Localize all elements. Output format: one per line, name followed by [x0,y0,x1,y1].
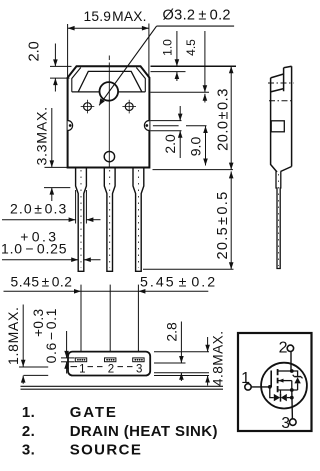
dim 5.45 line [4,289,209,294]
svg-text:2: 2 [108,364,114,376]
junction gate [268,385,272,389]
side notch left [68,121,73,131]
svg-text:1.0−0.25: 1.0−0.25 [1,240,67,256]
gate protection zeners [270,387,292,402]
source contact [278,389,298,391]
svg-text:3.3MAX.: 3.3MAX. [34,106,50,165]
svg-text:SOURCE: SOURCE [70,441,143,458]
dim 9.0 [153,126,208,166]
junction source [290,388,294,392]
side notch right [144,121,149,131]
bottom view pad 3 [133,358,144,362]
mosfet gate bar [270,371,272,388]
side view lead [276,172,281,269]
svg-text:2.: 2. [22,423,35,440]
svg-text:1: 1 [79,364,85,376]
terminal 2 [287,345,293,351]
side view dash line upper [268,82,294,84]
mosfet channel bar [277,369,279,392]
junction zener-source [290,396,294,400]
svg-text:20.5±0.5: 20.5±0.5 [215,190,231,259]
svg-text:2: 2 [279,340,288,357]
bottom view dashed tab line [71,366,78,368]
side view tab [284,66,292,166]
bottom view pad 1 [75,358,86,362]
dim 4.8 MAX. [154,330,225,386]
mounting hole [100,82,119,101]
dim 4.5 [151,31,210,103]
svg-text:5.45±0.2: 5.45±0.2 [140,275,217,291]
junction drain [290,369,294,373]
svg-text:3.: 3. [22,441,35,458]
svg-text:GATE: GATE [70,404,118,421]
terminal 1 [245,384,251,390]
dim 2.0 top left [26,41,71,91]
svg-text:2.0: 2.0 [26,41,42,61]
terminal 3 [290,419,297,426]
dim 3.3 MAX. [34,106,70,201]
bottom view pad 2 [105,358,116,362]
ejector mark right [122,100,136,114]
side view dash line lower [269,100,293,102]
wire gate [251,386,270,388]
dim 15.9 MAX. [68,9,149,77]
front view inner rim right [136,68,145,92]
svg-text:DRAIN (HEAT SINK): DRAIN (HEAT SINK) [70,423,218,440]
transistor circle [261,363,307,409]
svg-text:20.0±0.3: 20.0±0.3 [216,88,232,151]
dim 1.8 MAX. [5,305,48,384]
bottom center circle [104,151,114,161]
svg-text:15.9MAX.: 15.9MAX. [84,9,147,24]
svg-text:3: 3 [136,364,142,376]
dim 2.0 notch [151,106,183,158]
svg-text:1.0: 1.0 [160,39,174,56]
front view inner rim left [72,68,81,92]
dim 1.0 top right [151,31,237,81]
wire source to pin 3 [291,390,294,419]
ejector mark left [81,100,95,114]
dim hole dia [99,7,234,105]
dim 2.8 [154,322,209,382]
dim 20.0 +-0.3 [153,66,234,169]
pin 2 front [104,168,115,272]
svg-text:2.0: 2.0 [162,134,178,154]
drain contact [278,370,292,372]
dim 2.0 +-0.3 lead shoulder [2,190,101,224]
svg-text:4.8MAX.: 4.8MAX. [210,330,225,386]
seating plane lines [21,385,224,387]
bottom view body [68,352,150,376]
side view body [268,66,294,268]
center line [108,56,110,67]
wire drain [290,352,292,372]
front view ledge line [72,91,146,93]
pin 3 front [133,168,144,272]
side view notch rect [271,121,284,132]
svg-text:9.0: 9.0 [187,137,203,157]
svg-text:1.: 1. [22,404,35,421]
svg-text:1.8MAX.: 1.8MAX. [5,306,21,365]
front view body outline [68,66,150,167]
dim 0.6 +0.3 -0.1 lead thickness [31,308,74,373]
body contact arrow [279,380,292,382]
svg-text:2.8: 2.8 [164,322,180,342]
svg-text:3: 3 [281,415,290,432]
svg-text:5.45±0.2: 5.45±0.2 [11,275,73,290]
body diode [292,371,303,390]
svg-text:4.5: 4.5 [184,39,198,56]
svg-text:0.6−0.1: 0.6−0.1 [43,308,59,363]
dim 20.5 +-0.5 [143,171,234,269]
front view boss trapezoid [78,71,142,92]
side view body outline [271,74,292,172]
pin 1 front [76,168,87,272]
pin center extension lines to bottom view [80,285,82,358]
svg-text:2.0±0.3: 2.0±0.3 [10,201,67,217]
schematic box [238,333,312,431]
dim 1.0 +0.3 -0.25 lead width [1,228,101,262]
